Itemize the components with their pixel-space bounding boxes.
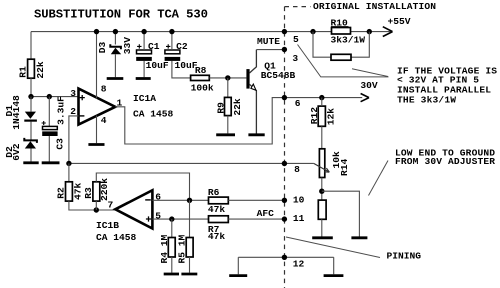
wire D3 top (114, 32, 116, 45)
wire R12 top (321, 98, 323, 107)
junction rail C2 (169, 29, 174, 34)
svg-text:4: 4 (101, 115, 107, 126)
pointer line parallel resistor note (352, 69, 388, 77)
resistor R9 (216, 97, 243, 115)
junction R12 top (319, 95, 324, 100)
ground for D3 (107, 77, 124, 80)
junction node A C3 tap (47, 94, 52, 99)
svg-text:R5 1M: R5 1M (177, 234, 188, 263)
ground for C3 (42, 161, 60, 164)
resistor R3 (83, 178, 110, 201)
svg-text:R4 1M: R4 1M (159, 234, 170, 263)
ground right of R13 (351, 236, 367, 239)
resistor R1 (17, 59, 46, 78)
wire R5 top (189, 200, 191, 237)
svg-text:C1: C1 (148, 41, 160, 52)
wire C3 to ground (48, 136, 50, 162)
resistor R10 (331, 17, 366, 45)
op-amp IC1B (96, 190, 152, 243)
potentiometer R14 (314, 149, 350, 178)
svg-text:10uF: 10uF (146, 60, 169, 71)
wire R13 bottom to ground (321, 219, 323, 236)
wire parallel resistor loop (313, 32, 369, 58)
wire R4 top (171, 219, 173, 237)
capacitor C3 (42, 96, 67, 150)
svg-text:220k: 220k (99, 178, 110, 201)
capacitor C1 (136, 41, 169, 71)
svg-text:12: 12 (293, 258, 305, 269)
junction node A (28, 94, 33, 99)
wire pin 12 (238, 257, 333, 274)
resistor R4 (159, 234, 175, 263)
wire R7 to pin 11 (228, 218, 284, 220)
svg-text:47k: 47k (208, 204, 226, 215)
wire node A to C3 (48, 97, 50, 127)
svg-text:FROM 30V ADJUSTER: FROM 30V ADJUSTER (395, 156, 495, 167)
wire R3 bottom (95, 201, 97, 210)
svg-text:R1: R1 (17, 66, 28, 78)
wire C2 top (171, 32, 173, 50)
ground for IC1A pin 4 (88, 143, 104, 146)
wire D3 bottom to ground (114, 54, 116, 77)
svg-text:5: 5 (293, 34, 299, 45)
wire top supply rail (31, 31, 391, 33)
svg-text:8: 8 (294, 164, 300, 175)
ground for C1 (136, 77, 151, 80)
note text low end (395, 148, 495, 168)
wire R5 bottom (189, 257, 191, 273)
svg-text:MUTE: MUTE (257, 36, 280, 47)
svg-text:10: 10 (293, 195, 305, 206)
ground for Q1 emitter (248, 133, 264, 136)
arrow +55V (383, 27, 393, 37)
wire IC1B pin 6 to R6 (152, 199, 208, 201)
resistor R6 (208, 187, 228, 215)
junction pin 6 node R5 (187, 198, 192, 203)
svg-text:PINING: PINING (387, 251, 422, 262)
ground for D2 (23, 161, 38, 164)
resistor R7 (208, 216, 228, 242)
junction rail C1 (141, 29, 146, 34)
svg-text:8: 8 (101, 84, 107, 95)
junction pin 5 node R4 (169, 216, 174, 221)
junction pin 12 (282, 255, 287, 260)
junction R10 right (367, 29, 372, 34)
junction pin 11 (282, 216, 287, 221)
svg-text:BC548B: BC548B (261, 70, 296, 81)
wire node A to D1 (30, 97, 32, 112)
junction R10 left (310, 29, 315, 34)
junction rail pin 8 (94, 29, 99, 34)
svg-text:CA 1458: CA 1458 (133, 108, 174, 119)
svg-text:+55V: +55V (388, 16, 411, 27)
svg-text:33V: 33V (122, 37, 133, 55)
diode D1 (4, 95, 37, 130)
dashed pin row line (285, 7, 311, 288)
wire R2 bottom to IC1B output (69, 201, 115, 210)
svg-text:5: 5 (155, 211, 161, 222)
svg-text:R6: R6 (208, 187, 220, 198)
svg-text:C2: C2 (176, 41, 188, 52)
ground for R4 (164, 273, 179, 276)
wire R14 junction to right ground (322, 191, 360, 236)
wire R1 top from rail (30, 32, 32, 60)
wire R9 top (227, 78, 229, 98)
svg-text:3: 3 (70, 88, 76, 99)
svg-text:C3: C3 (54, 138, 65, 150)
svg-text:R12: R12 (309, 107, 320, 125)
wire D2 to ground (30, 149, 32, 162)
zener diode D2 (4, 138, 37, 161)
junction R14 bottom (319, 189, 324, 194)
junction rail D3 (113, 29, 118, 34)
pointer line pining (286, 237, 380, 258)
wire Q1 collector to MUTE pin (256, 49, 284, 51)
junction pin 6 dashed (282, 95, 287, 100)
resistor R13 (318, 200, 326, 219)
op-amp IC1A (79, 89, 174, 125)
ground for R9 (216, 133, 235, 136)
svg-text:3.3uF: 3.3uF (56, 96, 67, 125)
wire IC1B pin 5 to R7 (152, 218, 208, 220)
wire C1 bottom to ground (143, 61, 145, 77)
svg-text:ORIGINAL INSTALLATION: ORIGINAL INSTALLATION (313, 1, 436, 12)
pointer line low end note (369, 161, 389, 196)
capacitor C2 (165, 41, 198, 71)
junction R8 R9 base (225, 75, 230, 80)
wire IC1A pin 4 to ground (96, 116, 98, 144)
junction pin 8 dashed (282, 161, 287, 166)
svg-text:R9: R9 (216, 102, 227, 114)
svg-text:6V2: 6V2 (11, 143, 22, 161)
resistor R5 (177, 234, 194, 263)
wire R9 bottom to ground (227, 116, 229, 134)
wire R1 bottom to node A (30, 78, 32, 96)
ground for R13 (312, 236, 333, 239)
resistor parallel 3k3 (331, 54, 351, 60)
junction pin 5 rail (282, 29, 287, 34)
svg-text:R14: R14 (339, 158, 350, 176)
svg-text:THE 3k3/1W: THE 3k3/1W (397, 94, 456, 105)
wire IC1A pin 8 to rail (96, 32, 98, 99)
wire R14 bottom (321, 178, 323, 201)
svg-text:22k: 22k (232, 98, 243, 116)
wire R3 top feedback to pin 6 (96, 173, 189, 200)
wire R12 bottom to R14 (321, 126, 323, 149)
wire R8 to Q1 base (209, 77, 246, 79)
wire C1 top (143, 32, 145, 50)
svg-text:47k: 47k (73, 182, 84, 200)
svg-text:11: 11 (293, 213, 305, 224)
arrow 30V (361, 94, 369, 102)
wire node A to IC1A pin 3 (31, 96, 79, 98)
svg-text:7: 7 (108, 200, 114, 211)
svg-text:D3: D3 (97, 41, 108, 53)
zener diode D3 (97, 37, 133, 55)
svg-text:IC1A: IC1A (133, 93, 156, 104)
wire R2 top (68, 163, 70, 181)
wire D1 to D2 (30, 122, 32, 140)
wire C2 bottom to R8 (172, 61, 191, 78)
note text voltage (397, 66, 497, 106)
net wire pin 8 feedback (69, 162, 314, 164)
junction pin 10 (282, 198, 287, 203)
wire R4 bottom (171, 257, 173, 273)
svg-text:AFC: AFC (257, 208, 275, 219)
svg-text:1N4148: 1N4148 (11, 95, 22, 130)
svg-text:6: 6 (295, 98, 301, 109)
svg-text:R8: R8 (195, 65, 207, 76)
wire IC1A pin 2 feedback (69, 116, 79, 163)
svg-text:R3: R3 (83, 187, 94, 199)
svg-text:30V: 30V (360, 80, 378, 91)
junction MUTE pin 3 (282, 47, 287, 52)
junction R3 bottom (94, 207, 99, 212)
transistor Q1 (246, 50, 295, 135)
junction feedback left (66, 161, 71, 166)
ground pin 12 left (229, 274, 247, 277)
resistor R12 (309, 106, 336, 126)
wire IC1A output pin 1 (115, 98, 362, 144)
ground pin 12 right (324, 274, 344, 277)
svg-text:SUBSTITUTION FOR TCA 530: SUBSTITUTION FOR TCA 530 (34, 8, 208, 22)
svg-text:CA 1458: CA 1458 (96, 232, 137, 243)
svg-text:12k: 12k (325, 108, 336, 126)
wire R6 to pin 10 (228, 199, 284, 201)
svg-text:100k: 100k (191, 83, 214, 94)
svg-text:R2: R2 (56, 187, 67, 199)
pointer line pin 5 note (298, 45, 389, 77)
resistor R2 (56, 182, 84, 201)
svg-text:22k: 22k (35, 61, 46, 79)
svg-text:47k: 47k (208, 231, 226, 242)
svg-text:3k3/1W: 3k3/1W (331, 35, 366, 46)
svg-text:IC1B: IC1B (96, 220, 119, 231)
ground for R5 (181, 273, 197, 276)
resistor R8 (191, 65, 214, 94)
svg-text:3: 3 (292, 53, 298, 64)
